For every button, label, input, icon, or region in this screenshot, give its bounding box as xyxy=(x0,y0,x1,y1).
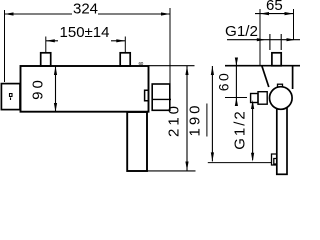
mixer body (front view) xyxy=(21,66,149,112)
handle (left end, front view) xyxy=(1,84,20,110)
dim 65 line xyxy=(255,13,294,15)
body left diagonal (side view) xyxy=(262,66,269,87)
svg-text:G1/2: G1/2 xyxy=(232,109,249,150)
dim 90 arrow down xyxy=(54,103,57,112)
top edge extension line to right xyxy=(149,65,195,67)
svg-text:90: 90 xyxy=(30,77,47,100)
dim 324 line xyxy=(5,13,73,15)
dim 150±14 extension line right xyxy=(124,37,126,53)
spout / outlet (front view, below body) xyxy=(127,112,147,171)
svg-text:G1/2: G1/2 xyxy=(225,23,258,40)
dim 60 extension line xyxy=(225,97,247,99)
dim 210 line xyxy=(186,66,188,171)
handle detail mark xyxy=(10,94,13,101)
dim 65 arrow left xyxy=(260,12,269,15)
dim 90 line xyxy=(55,66,57,112)
svg-text:324: 324 xyxy=(73,0,98,17)
G1/2 leader line bottom xyxy=(252,102,254,160)
dim 150±14 arrow left xyxy=(46,39,55,42)
dim 190 bottom extension line xyxy=(208,162,272,164)
dim 150±14 arrow right xyxy=(116,39,125,42)
dim 60 arrow (down, tip at wall) xyxy=(235,58,238,67)
dim 65 extension line left xyxy=(259,9,261,65)
hand shower bar (side view) xyxy=(277,104,287,174)
body right edge (side view) xyxy=(292,66,294,89)
svg-text:65: 65 xyxy=(266,0,283,14)
dim 150±14 extension line left xyxy=(45,37,47,53)
spout bottom extension line xyxy=(147,170,196,172)
G1/2 leader line top xyxy=(227,39,300,41)
G1/2 leader bottom arrow up xyxy=(251,100,254,109)
dim 324 extension line right xyxy=(169,8,171,84)
handle knob nub (side view) xyxy=(278,84,283,87)
knob inner line xyxy=(152,98,171,100)
dim 190 line xyxy=(211,66,213,161)
svg-text:60: 60 xyxy=(139,61,144,66)
diverter knob (right of body) xyxy=(152,84,170,110)
dim 65 extension line right xyxy=(293,9,295,40)
union nut (side view) xyxy=(272,53,281,66)
dim 60 arrow (up, tip at outlet axis) xyxy=(235,98,238,107)
dim 324 arrow right xyxy=(161,12,170,15)
dim 324 arrow left xyxy=(5,12,14,15)
dim 190 arrow down xyxy=(211,152,214,161)
hose bracket on bar xyxy=(272,154,277,165)
inlet pipe left (side view) xyxy=(269,34,271,50)
inlet connection left xyxy=(41,53,51,66)
shower outlet stub (side view) xyxy=(251,94,258,103)
dim 324 extension line left xyxy=(4,10,6,82)
svg-text:60: 60 xyxy=(216,71,232,92)
dim 190 text underline xyxy=(206,104,208,137)
wall line (shared top edge, side view) xyxy=(225,65,300,67)
dim 210 arrow down xyxy=(185,162,188,171)
G1/2 leader arrow 2 xyxy=(287,38,296,41)
diverter bracket inside body right end xyxy=(145,90,149,101)
dim 60 line xyxy=(235,59,237,106)
dim 210 arrow up xyxy=(185,66,188,75)
inlet pipe right (side view) xyxy=(280,34,282,50)
G1/2 leader arrow 1 xyxy=(257,38,266,41)
dim 150±14 line xyxy=(46,40,58,42)
svg-text:190: 190 xyxy=(186,102,203,136)
svg-text:150±14: 150±14 xyxy=(60,24,110,41)
dim 90 arrow up xyxy=(54,66,57,75)
svg-text:210: 210 xyxy=(166,103,183,137)
dim 65 arrow right xyxy=(285,12,294,15)
handle knob circle (side view) xyxy=(270,87,293,110)
G1/2 leader bottom arrow down xyxy=(251,153,254,162)
dim 190 arrow up xyxy=(211,66,214,75)
inlet connection right xyxy=(120,53,130,66)
